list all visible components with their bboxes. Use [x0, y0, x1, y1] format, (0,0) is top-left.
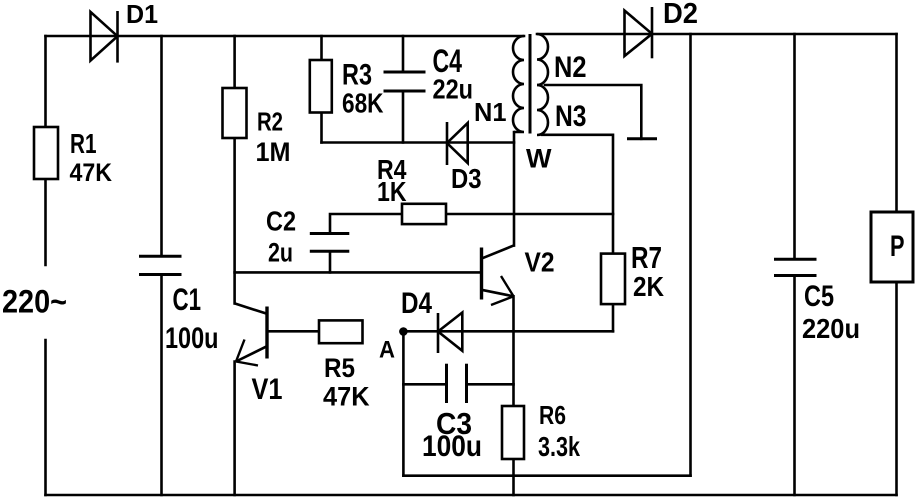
diode D2: [625, 7, 653, 58]
wire feedback box bottom: [403, 474, 690, 477]
svg-text:1M: 1M: [256, 137, 291, 167]
wire V2 emitter down to R6: [512, 296, 515, 406]
wire feedback vertical from top rail: [689, 34, 692, 476]
resistor R3: [310, 60, 332, 113]
transistor V2: [482, 246, 514, 305]
transistor V1: [235, 303, 319, 365]
svg-text:N3: N3: [555, 100, 587, 133]
svg-text:2u: 2u: [268, 238, 293, 268]
wire secondary bottom to R7 top: [542, 135, 613, 254]
svg-text:V2: V2: [525, 247, 555, 278]
wire bottom rail: [46, 494, 897, 497]
svg-text:A: A: [379, 337, 395, 364]
wire primary bottom to V2 collector: [513, 132, 516, 246]
wire left vertical lower from AC source: [44, 340, 47, 495]
svg-text:R1: R1: [70, 128, 97, 159]
wire left vertical upper to AC source: [44, 36, 47, 265]
wire R3 branch: [320, 36, 323, 143]
wire top rail right secondary to corner: [537, 33, 897, 36]
resistor R1: [34, 127, 58, 179]
wire C1 branch upper: [160, 36, 163, 256]
wire C5 branch: [793, 34, 796, 495]
capacitor C3: [447, 364, 467, 403]
svg-text:47K: 47K: [323, 382, 370, 412]
transformer core: [529, 34, 532, 134]
svg-text:220u: 220u: [802, 313, 860, 344]
resistor R7: [601, 254, 625, 305]
load P box: [871, 212, 913, 282]
wire top rail left: [46, 35, 525, 38]
capacitor C1: [139, 256, 182, 274]
wire R6 bottom lead: [512, 459, 515, 495]
svg-text:R7: R7: [631, 240, 662, 275]
transformer secondary winding N3: [537, 85, 548, 135]
wire R2 branch upper: [233, 36, 236, 88]
resistor R5: [319, 320, 363, 343]
svg-text:22u: 22u: [433, 74, 474, 105]
diode D3: [447, 122, 468, 165]
wire R3/C4 bottom rail through D3 to primary: [322, 141, 515, 144]
svg-text:3.3k: 3.3k: [538, 431, 580, 462]
svg-text:C1: C1: [173, 281, 202, 317]
svg-text:N2: N2: [554, 51, 587, 84]
svg-text:1K: 1K: [377, 176, 407, 207]
capacitor C4: [384, 72, 426, 91]
wire node A vertical down: [402, 331, 405, 475]
svg-text:D1: D1: [126, 0, 158, 29]
wire R4 right lead: [446, 213, 614, 216]
svg-text:C5: C5: [804, 280, 834, 313]
transformer primary winding N1: [513, 36, 524, 132]
svg-text:220~: 220~: [2, 284, 67, 320]
svg-text:100u: 100u: [165, 322, 219, 355]
wire C2 bottom lead: [329, 251, 332, 272]
svg-text:R6: R6: [539, 400, 566, 430]
wire C1 branch lower: [160, 275, 163, 496]
svg-text:D3: D3: [451, 163, 482, 194]
diode D1: [91, 11, 118, 63]
wire right edge down to P: [895, 34, 898, 212]
svg-text:P: P: [890, 230, 905, 263]
capacitor C2: [310, 234, 350, 252]
svg-text:R2: R2: [257, 109, 283, 137]
svg-text:N1: N1: [474, 97, 507, 127]
svg-text:47K: 47K: [70, 159, 113, 187]
resistor R4: [402, 204, 446, 224]
transformer secondary winding N2: [537, 34, 548, 85]
wire node A to R7 corner through D4: [403, 330, 613, 333]
svg-text:R5: R5: [324, 353, 355, 383]
svg-text:D2: D2: [663, 0, 698, 30]
svg-text:V1: V1: [252, 373, 283, 406]
wire C4 branch: [402, 36, 405, 143]
svg-text:68K: 68K: [342, 88, 384, 119]
svg-text:2K: 2K: [633, 271, 664, 302]
svg-text:C2: C2: [266, 206, 296, 237]
wire R4 left lead and C2 top lead: [330, 214, 402, 234]
ground: [627, 137, 657, 140]
wire P to bottom rail: [895, 282, 898, 495]
node A junction dot: [399, 327, 408, 336]
svg-text:100u: 100u: [422, 430, 482, 463]
wire C3 left lead: [403, 383, 446, 386]
capacitor C5: [774, 259, 817, 275]
wire R2 bottom to V1 collector: [233, 138, 236, 304]
wire V1 emitter down: [233, 362, 236, 496]
svg-text:W: W: [526, 144, 552, 174]
resistor R6: [502, 406, 524, 459]
wire R7 bottom lead: [612, 305, 615, 332]
wire secondary mid tap to ground: [545, 85, 641, 139]
resistor R2: [223, 88, 247, 138]
svg-text:D4: D4: [401, 287, 432, 320]
diode D4: [438, 313, 462, 354]
wire mid horizontal to V2 base: [235, 271, 482, 274]
wire C3 right lead: [467, 383, 514, 386]
